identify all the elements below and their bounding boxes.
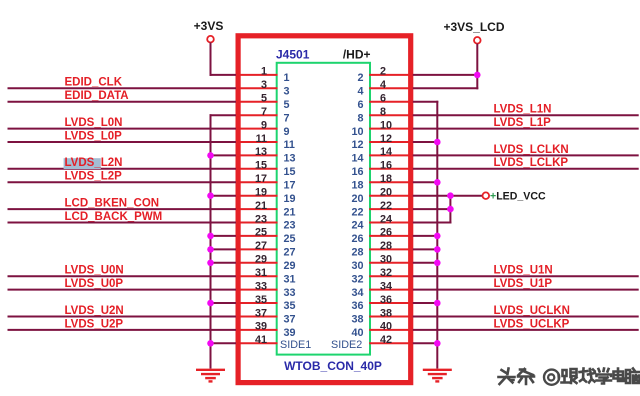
svg-text:13: 13 <box>284 153 296 165</box>
svg-text:34: 34 <box>351 287 363 299</box>
svg-text:LVDS_U0N: LVDS_U0N <box>65 265 124 277</box>
svg-text:22: 22 <box>380 200 392 212</box>
pin 42 <box>369 334 413 346</box>
pin 29 <box>236 254 296 272</box>
pin 8 <box>357 106 413 124</box>
wire GND bus left to pin 19 <box>210 195 237 197</box>
wire +LED_VCC to pin 24 <box>413 222 452 224</box>
svg-text:40: 40 <box>380 321 392 333</box>
svg-text:12: 12 <box>351 139 363 151</box>
svg-text:21: 21 <box>255 200 267 212</box>
svg-text:5: 5 <box>261 93 267 105</box>
wire LVDS_U2P <box>8 329 237 331</box>
pin 26 <box>351 227 413 245</box>
svg-text:3: 3 <box>284 86 290 98</box>
wire LVDS_L1N <box>413 114 639 116</box>
pin 41 <box>236 334 278 346</box>
junction GND bus right pin 36 <box>434 300 441 307</box>
svg-text:6: 6 <box>380 93 386 105</box>
wire GND bus right vertical <box>436 101 438 369</box>
svg-text:LVDS_U0P: LVDS_U0P <box>65 278 124 290</box>
wire +3VS vertical <box>210 43 212 76</box>
pin 1 <box>236 66 290 84</box>
svg-text:33: 33 <box>284 287 296 299</box>
junction +LED_VCC pin 22 <box>447 206 454 213</box>
svg-text:7: 7 <box>284 112 290 124</box>
wire EDID_DATA <box>8 101 237 103</box>
wire GND bus left to pin 29 <box>210 262 237 264</box>
svg-text:J4501: J4501 <box>276 48 310 62</box>
wire GND bus right to pin 12 <box>413 141 439 143</box>
pin 30 <box>351 254 413 272</box>
svg-text:10: 10 <box>380 119 392 131</box>
pin 24 <box>351 213 413 231</box>
svg-text:+LED_VCC: +LED_VCC <box>490 191 546 203</box>
svg-text:2: 2 <box>357 72 363 84</box>
svg-text:2: 2 <box>380 66 386 78</box>
svg-text:16: 16 <box>351 166 363 178</box>
wire LVDS_L2N <box>8 168 237 170</box>
svg-text:LCD_BACK_PWM: LCD_BACK_PWM <box>65 211 163 223</box>
svg-text:SIDE2: SIDE2 <box>331 339 362 351</box>
junction GND bus left pin 19 <box>207 192 214 199</box>
wire LVDS_L0P <box>8 141 237 143</box>
svg-text:33: 33 <box>255 280 267 292</box>
svg-text:17: 17 <box>284 180 296 192</box>
svg-text:27: 27 <box>255 240 267 252</box>
svg-text:27: 27 <box>284 247 296 259</box>
svg-text:9: 9 <box>261 119 267 131</box>
wire +LED_VCC to pin 20 <box>413 195 483 197</box>
svg-text:30: 30 <box>351 260 363 272</box>
wire LVDS_L2P <box>8 181 237 183</box>
svg-text:LVDS_U2N: LVDS_U2N <box>65 305 124 317</box>
svg-text:37: 37 <box>255 307 267 319</box>
wire GND bus right to pin 6 <box>413 101 439 103</box>
svg-text:LVDS_U1P: LVDS_U1P <box>494 278 553 290</box>
svg-text:31: 31 <box>284 273 296 285</box>
svg-text:1: 1 <box>284 72 290 84</box>
svg-text:18: 18 <box>351 180 363 192</box>
svg-text:23: 23 <box>284 220 296 232</box>
svg-text:30: 30 <box>380 254 392 266</box>
wire +3VS_LCD vertical <box>476 44 478 90</box>
pin 14 <box>351 146 413 164</box>
svg-text:29: 29 <box>284 260 296 272</box>
pin 25 <box>236 227 296 245</box>
pin 34 <box>351 280 413 298</box>
wire LVDS_LCLKN <box>413 154 639 156</box>
svg-text:22: 22 <box>351 206 363 218</box>
svg-text:39: 39 <box>284 327 296 339</box>
wire LVDS_U0P <box>8 289 237 291</box>
pin 12 <box>351 133 413 151</box>
pin 31 <box>236 267 296 285</box>
svg-text:41: 41 <box>255 334 267 346</box>
svg-text:39: 39 <box>255 321 267 333</box>
svg-text:36: 36 <box>351 300 363 312</box>
svg-text:LCD_BKEN_CON: LCD_BKEN_CON <box>65 198 160 210</box>
svg-text:LVDS_L1N: LVDS_L1N <box>494 104 552 116</box>
svg-text:LVDS_UCLKP: LVDS_UCLKP <box>494 318 570 330</box>
svg-text:LVDS_L0N: LVDS_L0N <box>65 117 123 129</box>
svg-text:11: 11 <box>284 139 295 151</box>
pin 16 <box>351 160 413 178</box>
ground symbol right <box>423 370 452 382</box>
svg-text:32: 32 <box>351 273 363 285</box>
svg-text:40: 40 <box>351 327 363 339</box>
svg-text:31: 31 <box>255 267 267 279</box>
svg-text:3: 3 <box>261 79 267 91</box>
svg-text:14: 14 <box>351 153 363 165</box>
pin 7 <box>236 106 290 124</box>
junction GND bus left pin 25 <box>207 233 214 240</box>
svg-text:11: 11 <box>256 133 267 145</box>
svg-text:23: 23 <box>255 213 267 225</box>
svg-text:32: 32 <box>380 267 392 279</box>
wire LVDS_U1N <box>413 275 639 277</box>
wire LVDS_U1P <box>413 289 639 291</box>
svg-text:28: 28 <box>351 247 363 259</box>
wire EDID_CLK <box>8 87 237 89</box>
junction GND bus right pin 18 <box>434 179 441 186</box>
junction GND bus right pin 30 <box>434 260 441 267</box>
svg-text:9: 9 <box>284 126 290 138</box>
svg-text:21: 21 <box>284 206 296 218</box>
svg-text:36: 36 <box>380 294 392 306</box>
svg-text:LVDS_L1P: LVDS_L1P <box>494 117 552 129</box>
junction GND bus left pin 29 <box>207 260 214 267</box>
svg-text:LVDS_U2P: LVDS_U2P <box>65 318 124 330</box>
svg-text:LVDS_LCLKN: LVDS_LCLKN <box>494 144 569 156</box>
pin 19 <box>236 187 296 205</box>
wire +3VS_LCD to pin 4 <box>413 87 479 89</box>
svg-text:5: 5 <box>284 99 290 111</box>
junction GND bus right pin 26 <box>434 233 441 240</box>
pin 35 <box>236 294 296 312</box>
junction +LED_VCC pin 20 <box>447 192 454 199</box>
connector J4501 outer body <box>238 36 411 383</box>
wire GND bus left to pin 41 <box>210 342 237 344</box>
wire LVDS_UCLKP <box>413 329 639 331</box>
svg-text:20: 20 <box>351 193 363 205</box>
wire GND bus left to pin 13 <box>210 154 237 156</box>
svg-text:35: 35 <box>255 294 267 306</box>
svg-text:6: 6 <box>357 99 363 111</box>
wire GND bus left to pin 25 <box>210 235 237 237</box>
wire GND bus right to pin 36 <box>413 302 439 304</box>
svg-text:24: 24 <box>380 213 392 225</box>
ground symbol left <box>196 370 225 382</box>
svg-text:20: 20 <box>380 187 392 199</box>
svg-text:16: 16 <box>380 160 392 172</box>
svg-text:/HD+: /HD+ <box>343 48 371 62</box>
watermark Toutiao logo text <box>499 369 640 385</box>
pin 3 <box>236 79 290 97</box>
svg-text:24: 24 <box>351 220 363 232</box>
pin 40 <box>351 321 413 339</box>
pin 21 <box>236 200 296 218</box>
wire LVDS_UCLKN <box>413 316 639 318</box>
svg-text:LVDS_LCLKP: LVDS_LCLKP <box>494 157 569 169</box>
pin 28 <box>351 240 413 258</box>
pin 9 <box>236 119 290 137</box>
svg-text:26: 26 <box>380 227 392 239</box>
wire LCD_BKEN_CON <box>8 208 237 210</box>
svg-text:35: 35 <box>284 300 296 312</box>
svg-text:19: 19 <box>284 193 296 205</box>
svg-text:25: 25 <box>284 233 296 245</box>
highlight on LVDS of LVDS_L2N <box>64 158 101 169</box>
svg-text:14: 14 <box>380 146 392 158</box>
junction GND bus left pin 27 <box>207 246 214 253</box>
pin 18 <box>351 173 413 191</box>
svg-text:38: 38 <box>351 314 363 326</box>
junction +3VS_LCD pin 2 <box>474 72 481 79</box>
wire GND bus right to pin 18 <box>413 181 439 183</box>
pin 2 <box>357 66 413 84</box>
wire +3VS_LCD to pin 2 <box>413 74 479 76</box>
svg-text:17: 17 <box>255 173 267 185</box>
svg-text:EDID_DATA: EDID_DATA <box>65 90 129 102</box>
pin 36 <box>351 294 413 312</box>
pin 4 <box>357 79 413 97</box>
svg-text:13: 13 <box>255 146 267 158</box>
wire GND bus left to pin 27 <box>210 248 237 250</box>
svg-text:34: 34 <box>380 280 392 292</box>
power symbol +3VS <box>194 19 224 43</box>
wire +3VS to pin 1 <box>210 74 237 76</box>
svg-text:15: 15 <box>284 166 296 178</box>
pin 13 <box>236 146 296 164</box>
junction GND bus right pin 42 <box>434 340 441 347</box>
svg-text:8: 8 <box>380 106 386 118</box>
pin 11 <box>236 133 295 151</box>
svg-text:15: 15 <box>255 160 267 172</box>
svg-text:WTOB_CON_40P: WTOB_CON_40P <box>284 359 382 373</box>
wire GND bus left to pin 35 <box>210 302 237 304</box>
svg-text:42: 42 <box>380 334 392 346</box>
wire +LED_VCC to pin 22 <box>413 208 452 210</box>
wire LVDS_L1P <box>413 128 639 130</box>
svg-text:10: 10 <box>351 126 363 138</box>
svg-text:25: 25 <box>255 227 267 239</box>
svg-text:LVDS_L0P: LVDS_L0P <box>65 130 123 142</box>
wire LCD_BACK_PWM <box>8 222 237 224</box>
wire LVDS_LCLKP <box>413 168 639 170</box>
wire LVDS_L0N <box>8 128 237 130</box>
junction GND bus left pin 35 <box>207 300 214 307</box>
pin 23 <box>236 213 296 231</box>
power symbol +3VS_LCD <box>443 20 504 44</box>
pin 37 <box>236 307 296 325</box>
pin 32 <box>351 267 413 285</box>
junction GND bus left pin 13 <box>207 152 214 159</box>
svg-text:7: 7 <box>261 106 267 118</box>
svg-text:SIDE1: SIDE1 <box>280 339 311 351</box>
pin 10 <box>351 119 413 137</box>
wire GND bus right to pin 30 <box>413 262 439 264</box>
wire GND bus right to pin 42 <box>413 342 439 344</box>
svg-text:29: 29 <box>255 254 267 266</box>
pin 33 <box>236 280 296 298</box>
pin 39 <box>236 321 296 339</box>
svg-text:4: 4 <box>380 79 386 91</box>
wire GND bus left vertical <box>210 114 212 368</box>
power symbol +LED_VCC <box>483 191 546 203</box>
svg-text:8: 8 <box>357 112 363 124</box>
wire LVDS_U2N <box>8 316 237 318</box>
pin 22 <box>351 200 413 218</box>
svg-text:19: 19 <box>255 187 267 199</box>
wire GND bus left to pin 7 <box>210 114 237 116</box>
wire +LED_VCC bus vertical <box>449 195 451 224</box>
svg-text:26: 26 <box>351 233 363 245</box>
svg-text:LVDS_UCLKN: LVDS_UCLKN <box>494 305 570 317</box>
svg-text:18: 18 <box>380 173 392 185</box>
svg-text:4: 4 <box>357 86 363 98</box>
pin 27 <box>236 240 296 258</box>
svg-text:LVDS_L2N: LVDS_L2N <box>65 157 123 169</box>
wire LVDS_U0N <box>8 275 237 277</box>
connector J4501 inner body <box>277 63 370 355</box>
wire GND bus right to pin 28 <box>413 248 439 250</box>
svg-text:38: 38 <box>380 307 392 319</box>
svg-text:+3VS_LCD: +3VS_LCD <box>443 20 504 34</box>
svg-text:+3VS: +3VS <box>194 19 224 33</box>
svg-text:LVDS_U1N: LVDS_U1N <box>494 265 553 277</box>
junction GND bus right pin 12 <box>434 139 441 146</box>
pin 20 <box>351 187 413 205</box>
pin 15 <box>236 160 296 178</box>
junction GND bus right pin 28 <box>434 246 441 253</box>
pin 17 <box>236 173 296 191</box>
svg-text:12: 12 <box>380 133 392 145</box>
svg-text:28: 28 <box>380 240 392 252</box>
pin 38 <box>351 307 413 325</box>
svg-text:37: 37 <box>284 314 296 326</box>
svg-text:1: 1 <box>261 66 267 78</box>
svg-text:EDID_CLK: EDID_CLK <box>65 77 123 89</box>
wire GND bus right to pin 26 <box>413 235 439 237</box>
svg-text:LVDS_L2P: LVDS_L2P <box>65 171 123 183</box>
junction GND bus left pin 41 <box>207 340 214 347</box>
pin 6 <box>357 93 413 111</box>
pin 5 <box>236 93 290 111</box>
